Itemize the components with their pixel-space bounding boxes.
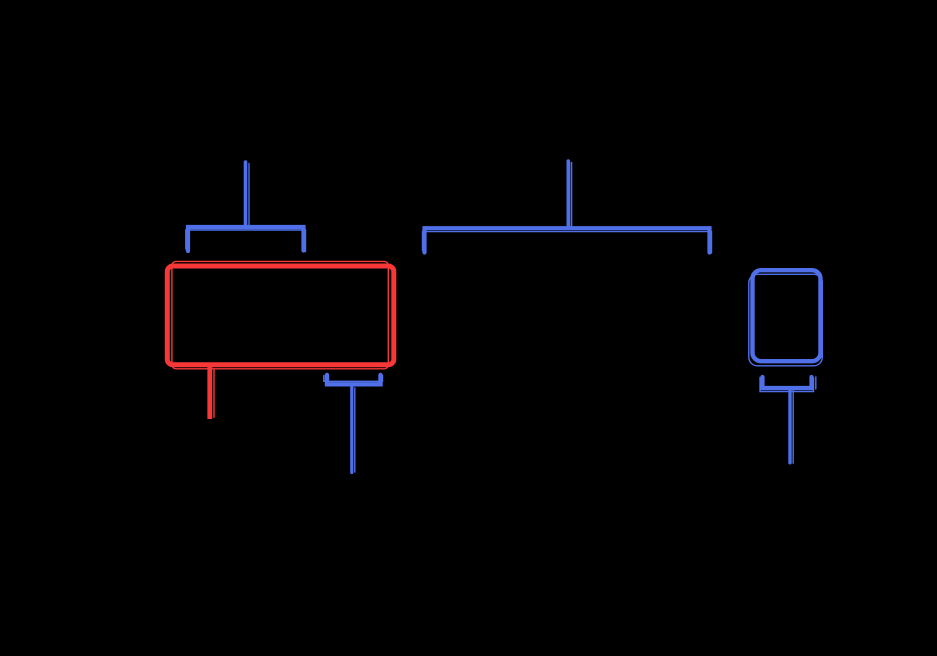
blue candle body (small, right) [749, 270, 823, 366]
bracket B4 stem (down) [790, 389, 793, 463]
bracket B1 (over red candle top) body [186, 227, 306, 252]
bracket B3 stem (down) [352, 387, 355, 473]
bracket B4 (under blue candle) body [760, 377, 816, 392]
bracket B2 (wide, over gap) body [423, 228, 712, 253]
red candle body (bearish) [167, 261, 393, 368]
red candle lower wick [210, 366, 214, 419]
bracket B1 (over red candle top) stem [246, 162, 250, 227]
bracket B3 (under red candle bottom) body [324, 375, 383, 384]
bracket B2 (wide, over gap) stem [568, 161, 571, 228]
